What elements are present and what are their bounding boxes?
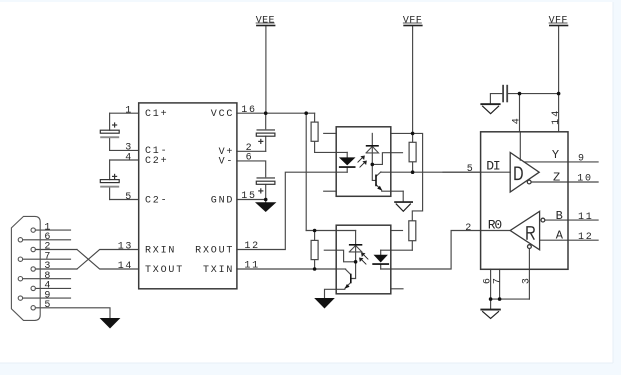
svg-text:C2+: C2+	[145, 156, 168, 167]
svg-text:C1+: C1+	[145, 109, 168, 120]
svg-text:12: 12	[578, 232, 593, 243]
svg-text:11: 11	[244, 261, 259, 272]
svg-text:5: 5	[44, 300, 52, 311]
svg-text:14: 14	[118, 261, 133, 272]
svg-text:RXOUT: RXOUT	[195, 245, 234, 256]
svg-text:B: B	[556, 209, 564, 223]
svg-text:Z: Z	[553, 171, 561, 185]
svg-text:4: 4	[125, 152, 133, 163]
svg-text:6: 6	[246, 153, 254, 164]
svg-text:VCC: VCC	[211, 109, 234, 120]
svg-text:VFF: VFF	[403, 16, 422, 27]
svg-text:12: 12	[244, 241, 259, 252]
svg-text:R0: R0	[488, 217, 502, 232]
svg-text:VEE: VEE	[256, 16, 275, 27]
svg-text:TXOUT: TXOUT	[145, 265, 184, 276]
svg-text:10: 10	[577, 174, 592, 185]
svg-text:5: 5	[467, 164, 475, 175]
svg-text:TXIN: TXIN	[203, 265, 234, 276]
svg-text:13: 13	[118, 241, 133, 252]
svg-text:C2-: C2-	[145, 195, 168, 206]
svg-text:GND: GND	[211, 195, 234, 206]
svg-text:9: 9	[578, 154, 586, 165]
svg-text:1: 1	[125, 106, 133, 117]
svg-text:16: 16	[241, 105, 256, 116]
svg-text:V-: V-	[219, 157, 235, 168]
svg-text:VFF: VFF	[549, 16, 568, 27]
svg-text:3: 3	[522, 276, 533, 284]
svg-text:DI: DI	[486, 159, 500, 174]
svg-text:5: 5	[125, 192, 133, 203]
svg-text:14: 14	[551, 108, 562, 124]
svg-text:A: A	[556, 229, 564, 243]
svg-text:2: 2	[465, 223, 473, 234]
svg-text:RXIN: RXIN	[145, 245, 176, 256]
svg-text:15: 15	[241, 191, 256, 202]
svg-text:4: 4	[511, 116, 522, 124]
svg-text:11: 11	[578, 212, 593, 223]
svg-text:7: 7	[492, 276, 503, 284]
svg-text:Y: Y	[552, 148, 560, 162]
